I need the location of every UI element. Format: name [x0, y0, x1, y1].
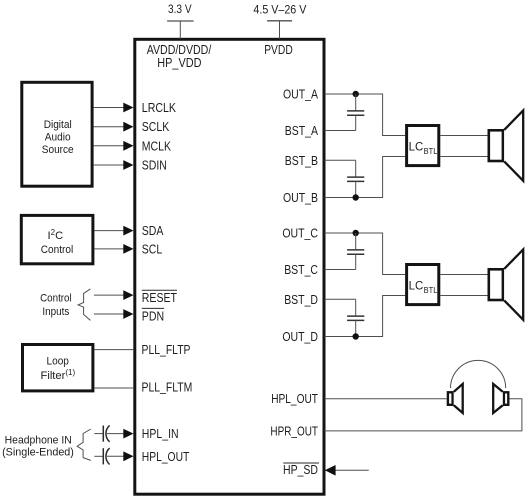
svg-text:BTL: BTL — [424, 285, 438, 295]
pin label PDN (active low, overline) — [142, 308, 164, 323]
wire BST_B stub — [325, 159, 356, 161]
pin label HPL_OUT (right) — [271, 392, 318, 406]
svg-text:BST_B: BST_B — [285, 154, 318, 168]
pin label OUT_B — [283, 191, 318, 205]
IC block U1 (audio amplifier device) — [135, 39, 324, 494]
wire OUT_C to LC filter — [325, 233, 406, 275]
svg-text:OUT_C: OUT_C — [282, 227, 318, 241]
wire SCL (arrow into U1) — [94, 244, 133, 254]
pin label SCLK — [142, 120, 170, 134]
coupling capacitor and wire HPL_OUT feedback (arrow into U1) — [94, 448, 133, 464]
pin label OUT_C — [282, 227, 318, 241]
wires LC_BTL to speaker (A/B) — [440, 136, 487, 157]
junction node OUT_B — [353, 194, 359, 200]
svg-text:HP_SD: HP_SD — [283, 463, 318, 477]
svg-text:HP_VDD: HP_VDD — [157, 56, 201, 70]
block Digital Audio Source — [22, 82, 92, 186]
svg-text:Inputs: Inputs — [42, 306, 69, 318]
svg-text:BTL: BTL — [424, 146, 438, 156]
pin label HP_SD (active low, overline) — [283, 463, 319, 477]
wire OUT_D to LC filter — [325, 296, 406, 337]
pin label PLL_FLTM — [142, 380, 193, 394]
junction node OUT_D — [353, 333, 359, 339]
wire PLL_FLTM — [94, 387, 133, 389]
svg-text:Control: Control — [40, 293, 72, 305]
svg-text:LC: LC — [409, 139, 424, 153]
pin label SCL — [142, 242, 162, 256]
svg-text:HPL_OUT: HPL_OUT — [142, 450, 190, 464]
svg-text:HPR_OUT: HPR_OUT — [270, 424, 318, 438]
pin label PVDD — [264, 43, 293, 57]
pin label BST_B — [285, 154, 318, 168]
svg-text:SDA: SDA — [142, 224, 164, 238]
bootstrap capacitor C_BST_A — [347, 94, 364, 131]
pin label BST_A — [285, 124, 319, 138]
wire MCLK from Digital Audio Source (arrow into U1) — [94, 141, 134, 151]
svg-text:SCL: SCL — [142, 242, 162, 256]
svg-text:Digital: Digital — [44, 119, 72, 131]
wire BST_D stub — [325, 298, 356, 300]
svg-text:HPL_OUT: HPL_OUT — [271, 392, 318, 406]
junction node OUT_C — [353, 230, 359, 236]
junction node OUT_A — [353, 91, 359, 97]
pin label AVDD/DVDD/HP_VDD — [147, 43, 212, 70]
pin label HPL_OUT (left) — [142, 450, 190, 464]
headphone left earcup — [448, 384, 463, 413]
wire PDN input (arrow into U1) — [94, 309, 134, 319]
speaker SPK2 (C/D bridge-tied load) — [489, 250, 523, 320]
wire SDIN from Digital Audio Source (arrow into U1) — [94, 160, 134, 170]
svg-text:(Single-Ended): (Single-Ended) — [2, 447, 74, 459]
svg-text:4.5 V–26 V: 4.5 V–26 V — [253, 2, 307, 16]
svg-text:OUT_A: OUT_A — [283, 88, 319, 102]
wire BST_A stub — [325, 130, 356, 132]
pin label PLL_FLTP — [142, 343, 191, 357]
svg-text:LC: LC — [409, 278, 424, 292]
wire HP_SD control input (arrow into U1) — [325, 465, 369, 476]
svg-text:Headphone IN: Headphone IN — [5, 435, 72, 447]
pin label RESET (active low, overline) — [142, 290, 177, 305]
svg-text:BST_D: BST_D — [284, 293, 318, 307]
pin label SDA — [142, 224, 164, 238]
svg-text:OUT_D: OUT_D — [282, 330, 318, 344]
svg-text:I2C: I2C — [48, 228, 64, 242]
pin label OUT_D — [282, 330, 318, 344]
headphone headband arc — [451, 360, 506, 388]
pin label SDIN — [142, 159, 167, 173]
wire BST_C stub — [325, 269, 356, 271]
svg-text:LRCLK: LRCLK — [142, 101, 177, 115]
wire OUT_A to LC filter — [325, 94, 406, 136]
power rail 3.3 V (net VDD33) — [167, 2, 194, 39]
wire RESET input (arrow into U1) — [94, 290, 134, 300]
svg-text:PLL_FLTP: PLL_FLTP — [142, 343, 191, 357]
power rail 4.5 V-26 V (net PVDD supply) — [253, 2, 307, 38]
svg-text:BST_C: BST_C — [284, 263, 318, 277]
speaker SPK1 (A/B bridge-tied load) — [489, 111, 523, 181]
wire HPR_OUT to headphone — [325, 399, 522, 431]
svg-text:HPL_IN: HPL_IN — [142, 427, 179, 441]
bootstrap capacitor C_BST_B — [347, 160, 364, 197]
svg-text:OUT_B: OUT_B — [283, 191, 318, 205]
pin label HPR_OUT (right) — [270, 424, 318, 438]
block I2C Control — [21, 215, 93, 263]
svg-text:BST_A: BST_A — [285, 124, 319, 138]
brace for control inputs — [78, 289, 90, 321]
pin label OUT_A — [283, 88, 319, 102]
pin label MCLK — [142, 139, 172, 153]
svg-text:PLL_FLTM: PLL_FLTM — [142, 380, 193, 394]
svg-text:PDN: PDN — [142, 310, 164, 324]
svg-text:3.3 V: 3.3 V — [168, 2, 192, 16]
block Loop Filter (note 1) — [23, 345, 93, 391]
LC output filter block LC_BTL (C/D) — [407, 265, 439, 305]
pin label BST_D — [284, 293, 318, 307]
headphone right earcup — [493, 384, 508, 413]
svg-text:SDIN: SDIN — [142, 159, 167, 173]
pin label HPL_IN — [142, 427, 179, 441]
svg-text:RESET: RESET — [142, 291, 177, 305]
wire LRCLK from Digital Audio Source (arrow into U1) — [94, 103, 134, 113]
wires LC_BTL to speaker (C/D) — [440, 275, 487, 296]
pin label BST_C — [284, 263, 318, 277]
coupling capacitor and wire HPL_IN (arrow into U1) — [94, 425, 133, 441]
svg-text:SCLK: SCLK — [142, 120, 170, 134]
bootstrap capacitor C_BST_C — [347, 233, 364, 270]
LC output filter block LC_BTL (A/B) — [407, 126, 439, 166]
pin label LRCLK — [142, 101, 177, 115]
brace for headphone inputs — [77, 429, 91, 460]
svg-text:Audio: Audio — [45, 131, 71, 143]
svg-text:Source: Source — [42, 144, 74, 156]
wire PLL_FLTP — [94, 349, 133, 351]
wire HPL_OUT to headphone — [325, 398, 447, 400]
bootstrap capacitor C_BST_D — [347, 299, 364, 336]
wire SDA (arrow into U1) — [94, 226, 133, 236]
wire SCLK from Digital Audio Source (arrow into U1) — [94, 122, 134, 132]
svg-text:PVDD: PVDD — [264, 43, 293, 57]
annotation Headphone IN (Single-Ended) — [2, 435, 74, 459]
wire OUT_B to LC filter — [325, 157, 406, 198]
svg-text:Loop: Loop — [47, 355, 69, 367]
svg-text:MCLK: MCLK — [142, 139, 172, 153]
svg-text:Control: Control — [41, 244, 74, 256]
annotation Control Inputs — [40, 293, 72, 318]
